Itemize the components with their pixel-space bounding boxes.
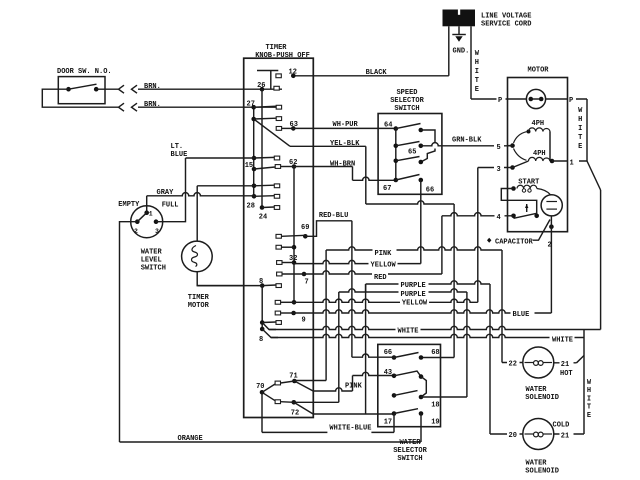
timer left bus <box>253 107 255 196</box>
water selector box <box>378 344 441 426</box>
timer contact dot 247 <box>292 245 297 250</box>
motor box <box>508 78 568 232</box>
svg-text:8: 8 <box>259 336 263 344</box>
svg-text:WHITE: WHITE <box>552 337 573 345</box>
wire 72 to purple riser <box>294 401 339 403</box>
wire 3 to left <box>478 167 508 169</box>
svg-text:66: 66 <box>426 187 434 195</box>
wire thermal left stub <box>508 98 527 100</box>
svg-text:RED: RED <box>374 274 387 282</box>
wire water level 3 to LT BLUE riser <box>156 158 186 222</box>
svg-text:1: 1 <box>149 211 153 218</box>
wire PURPLE2 from 72 riser <box>339 289 467 292</box>
speed selector right dot 2 <box>419 144 424 149</box>
svg-text:YELLOW: YELLOW <box>402 300 428 308</box>
svg-text:E: E <box>587 412 591 420</box>
svg-text:SWITCH: SWITCH <box>397 455 422 463</box>
wire 69 elbow to RED-BLU <box>305 221 352 237</box>
capacitor pointer <box>533 220 550 241</box>
wire thermal right to P corner <box>546 98 587 100</box>
svg-text:MOTOR: MOTOR <box>528 67 550 75</box>
wire WH-PUR timer 63 to speed selector 64 <box>293 127 396 129</box>
timer cam T-bar <box>257 70 278 72</box>
wire motor 4 <box>442 213 514 216</box>
wire 18 out <box>421 396 467 398</box>
door switch contact right <box>94 87 99 92</box>
svg-text:DOOR SW. N.O.: DOOR SW. N.O. <box>57 68 112 76</box>
svg-text:64: 64 <box>384 122 392 130</box>
speed selector blade 64 <box>396 124 421 129</box>
svg-text:LINE VOLTAGE: LINE VOLTAGE <box>481 13 531 21</box>
wire motor 3 vertical down <box>477 168 479 303</box>
motor start coil <box>511 186 516 191</box>
connector arrows lower <box>119 103 125 111</box>
svg-text:E: E <box>578 143 582 151</box>
svg-text:WATER: WATER <box>399 439 421 447</box>
blade 43 <box>394 371 421 377</box>
svg-text:67: 67 <box>383 185 391 193</box>
wire BLACK from timer 12 to plug <box>293 75 449 77</box>
svg-text:I: I <box>587 395 591 403</box>
wire 17 stub down <box>393 414 395 433</box>
svg-text:GND.: GND. <box>453 48 470 56</box>
door switch contact left <box>66 87 71 92</box>
wire YEL-BLK down and right <box>365 146 367 204</box>
svg-text:GRN-BLK: GRN-BLK <box>452 137 482 145</box>
svg-text:21: 21 <box>561 361 569 369</box>
svg-text:WATER: WATER <box>526 460 548 468</box>
wire start coil to capacitor circle <box>537 189 551 195</box>
wire 1 from coil junction <box>552 160 587 162</box>
wire 43 horizontal <box>353 372 395 375</box>
right jog 2-3 <box>421 377 426 397</box>
wire white to motor P <box>471 98 508 100</box>
svg-text:LEVEL: LEVEL <box>141 257 162 265</box>
wire pink down right <box>501 250 503 363</box>
svg-text:I: I <box>475 68 479 76</box>
water selector right dot 2 <box>419 374 424 379</box>
wire WH-BRN from 62 <box>294 166 353 168</box>
wire cold 21 <box>553 433 584 435</box>
wire water level 2 to orange <box>120 222 138 442</box>
motor coil link vertical <box>549 132 551 162</box>
svg-text:65: 65 <box>408 149 416 157</box>
svg-text:H: H <box>578 116 582 124</box>
svg-text:WH-BRN: WH-BRN <box>330 161 355 169</box>
wire 71 to PINK riser <box>294 380 326 382</box>
svg-text:5: 5 <box>497 144 501 152</box>
svg-text:PURPLE: PURPLE <box>401 291 426 299</box>
wire ORANGE <box>120 441 422 443</box>
svg-text:9: 9 <box>302 317 306 325</box>
timer box <box>244 58 314 417</box>
speed selector box <box>378 114 442 195</box>
wire YELLOW2 from timer to motor 3 <box>294 299 478 302</box>
water selector left dot 3 <box>392 393 397 398</box>
svg-text:E: E <box>475 86 479 94</box>
svg-text:T: T <box>587 404 591 412</box>
purple vertical 365 <box>365 284 367 414</box>
svg-text:PINK: PINK <box>345 383 363 391</box>
svg-text:WATER: WATER <box>526 386 548 394</box>
svg-text:4PH: 4PH <box>532 120 545 128</box>
svg-text:4: 4 <box>497 214 501 222</box>
timer 63 long diagonal to YEL-BLK <box>254 119 290 146</box>
wire purple2 vertical to 18 <box>466 292 468 397</box>
svg-text:BLUE: BLUE <box>171 151 188 159</box>
wire water selector 68 <box>421 357 454 359</box>
timer motor coil squiggle <box>192 246 198 267</box>
wire 22 <box>502 362 523 364</box>
wire PURPLE1 <box>366 281 490 284</box>
line voltage service cord plug <box>443 10 476 27</box>
wire purple1 down to cold solenoid <box>489 284 491 434</box>
wire motor 2 down to BLUE <box>550 216 552 313</box>
water level switch dot 2 <box>135 219 140 224</box>
timer 8 white elbows <box>260 320 265 325</box>
motor start switch <box>511 214 516 219</box>
speed selector right dot1 link <box>421 130 435 143</box>
wire GRAY water level 1 to timer 28 <box>147 193 254 196</box>
door switch blade <box>69 84 97 89</box>
svg-text:EMPTY: EMPTY <box>118 201 140 209</box>
svg-text:SPEED: SPEED <box>396 89 417 97</box>
speed selector left dot 3 <box>394 159 399 164</box>
timer bus dot 169 <box>252 167 257 172</box>
wire timer motor to bus <box>197 185 254 187</box>
wire BLUE from 9 to motor 2 <box>294 310 552 313</box>
ground symbol <box>452 34 466 36</box>
timer 8 bus lower <box>261 286 263 329</box>
svg-text:YELLOW: YELLOW <box>371 262 397 270</box>
wire YEL-BLK down to water selector 68 <box>453 204 455 358</box>
svg-text:CAPACITOR: CAPACITOR <box>495 239 534 247</box>
wire water level 1 up to gray <box>146 196 148 213</box>
svg-text:18: 18 <box>431 402 439 410</box>
PINK riser 71 up <box>325 250 327 381</box>
svg-text:WHITE-BLUE: WHITE-BLUE <box>329 425 371 433</box>
wire timer motor bottom to timer 8 <box>197 272 244 286</box>
water level switch dot 1 <box>144 210 149 215</box>
svg-text:TIMER: TIMER <box>265 44 287 52</box>
door switch box <box>58 77 105 104</box>
svg-text:P: P <box>498 97 502 105</box>
connector arrows upper <box>119 85 125 93</box>
wire start coil detour <box>501 189 536 216</box>
svg-text:SOLENOID: SOLENOID <box>525 467 559 475</box>
ground stem <box>458 26 460 34</box>
svg-text:PINK: PINK <box>375 250 393 258</box>
wire PINK main <box>326 247 502 250</box>
purple riser 72 up <box>338 292 340 402</box>
wire 70 down to white-blue <box>261 392 263 432</box>
timer 63 group bus dot <box>251 117 256 122</box>
svg-text:SWITCH: SWITCH <box>141 265 166 273</box>
timer motor circle <box>182 241 213 272</box>
wire GRN-BLK to motor 5 <box>421 143 513 146</box>
svg-text:SOLENOID: SOLENOID <box>525 394 559 402</box>
motor speed blade arcs <box>514 132 527 143</box>
white right vertical to solenoids <box>583 330 585 435</box>
hot water solenoid circle <box>523 347 554 378</box>
purple1 corner <box>365 284 367 292</box>
svg-text:7: 7 <box>305 279 309 287</box>
wire RED-BLU down to water selector 66 <box>351 221 353 357</box>
svg-text:20: 20 <box>509 432 517 440</box>
svg-text:T: T <box>475 77 479 85</box>
speed selector blade 65 <box>396 142 420 146</box>
wire YELLOW from 32 <box>294 260 421 263</box>
svg-text:1: 1 <box>570 160 574 168</box>
svg-text:LT.: LT. <box>171 143 184 151</box>
svg-text:43: 43 <box>384 369 392 377</box>
speed selector blade 67 <box>396 175 420 181</box>
motor capacitor bottom dot <box>549 224 554 229</box>
label CAPACITOR <box>487 238 491 243</box>
wire 8 to timer motor <box>197 285 262 287</box>
wire plug left down (black) <box>448 26 450 76</box>
wire door switch right to connector <box>96 88 118 90</box>
svg-text:3: 3 <box>155 228 159 235</box>
wire to water selector 17 <box>313 413 394 415</box>
svg-text:SWITCH: SWITCH <box>394 105 419 113</box>
wire 19 stub down to orange <box>420 414 422 443</box>
wire YEL-BLK right portion <box>290 145 366 147</box>
svg-text:SERVICE CORD: SERVICE CORD <box>481 21 531 29</box>
svg-text:PURPLE: PURPLE <box>401 282 426 290</box>
speed selector left dot 2 <box>394 144 399 149</box>
svg-text:HOT: HOT <box>560 370 573 378</box>
wire LT BLUE into timer 15 <box>186 157 255 159</box>
svg-text:72: 72 <box>291 410 299 418</box>
svg-text:I: I <box>578 125 582 133</box>
svg-text:H: H <box>587 387 591 395</box>
speed selector blade 3 <box>396 157 420 161</box>
wire WHITE2 from timer 8 <box>271 334 584 337</box>
svg-text:FULL: FULL <box>162 202 179 210</box>
wire white P down to 1 <box>586 99 588 161</box>
svg-text:SELECTOR: SELECTOR <box>390 97 424 105</box>
svg-text:2: 2 <box>548 242 552 250</box>
svg-text:3: 3 <box>497 166 501 174</box>
svg-text:BLUE: BLUE <box>513 311 530 319</box>
svg-text:69: 69 <box>301 224 309 232</box>
motor capacitor circle <box>541 195 562 216</box>
svg-text:MOTOR: MOTOR <box>188 302 210 310</box>
wire motor 4 vertical to RED <box>441 216 443 274</box>
wire BRN upper to timer 26 <box>138 88 282 90</box>
svg-text:70: 70 <box>256 383 264 391</box>
svg-text:WHITE: WHITE <box>398 328 419 336</box>
wire BRN lower to timer 27 <box>138 106 277 108</box>
start switch actuator <box>526 204 528 212</box>
svg-text:68: 68 <box>431 349 439 357</box>
water level switch dot 3 <box>154 219 159 224</box>
water level switch blade <box>137 213 146 222</box>
wire 20 <box>490 433 523 435</box>
wire plug right down (white) <box>470 26 472 99</box>
wire 71 diagonal to 43 connector <box>294 381 313 391</box>
speed selector right dot 1 <box>419 128 424 133</box>
svg-text:WATER: WATER <box>141 249 163 257</box>
svg-text:2: 2 <box>134 228 138 235</box>
svg-text:TIMER: TIMER <box>188 294 210 302</box>
water level switch circle <box>131 206 163 238</box>
wire 72 diagonal to 17 <box>294 402 313 414</box>
svg-text:21: 21 <box>561 432 569 440</box>
svg-text:24: 24 <box>259 214 267 222</box>
timer motor contact dot <box>252 184 257 189</box>
svg-text:19: 19 <box>431 419 439 427</box>
wire WHITE-BLUE <box>262 431 394 433</box>
timer yellow2 contact <box>275 300 280 304</box>
riser 43 to 71 <box>352 376 354 392</box>
wire white right vertical <box>600 190 602 330</box>
wire RED-BLU into 66 <box>352 354 394 357</box>
wire RED from 7 to motor 4 vertical <box>304 271 442 274</box>
hot 21 diagonal <box>577 356 585 363</box>
svg-text:17: 17 <box>384 419 392 427</box>
svg-text:H: H <box>475 59 479 67</box>
speed selector right dot 3 <box>419 160 424 165</box>
motor thermal protector circle <box>526 89 545 108</box>
speed selector left bus <box>395 129 397 180</box>
svg-text:66: 66 <box>384 349 392 357</box>
svg-text:28: 28 <box>247 203 255 211</box>
cold water solenoid circle <box>523 419 554 450</box>
timer 62 vertical <box>293 167 295 303</box>
wire WHITE1 from timer 8 <box>269 326 584 329</box>
wire WH-BRN corner down to 67 <box>352 167 354 181</box>
wire speed 66 down to yellow <box>420 180 422 264</box>
svg-text:T: T <box>578 134 582 142</box>
wire hot 21 <box>553 362 576 364</box>
wire white 1 diagonal <box>587 161 601 190</box>
timer right bus <box>261 89 263 207</box>
svg-text:P: P <box>569 97 573 105</box>
svg-text:COLD: COLD <box>553 422 570 430</box>
svg-text:22: 22 <box>509 361 517 369</box>
wire door switch left down <box>42 89 118 107</box>
motor terminal 3 <box>510 165 515 170</box>
svg-text:RED-BLU: RED-BLU <box>319 212 348 220</box>
wire timer motor top riser <box>196 186 198 241</box>
svg-text:SELECTOR: SELECTOR <box>393 447 427 455</box>
